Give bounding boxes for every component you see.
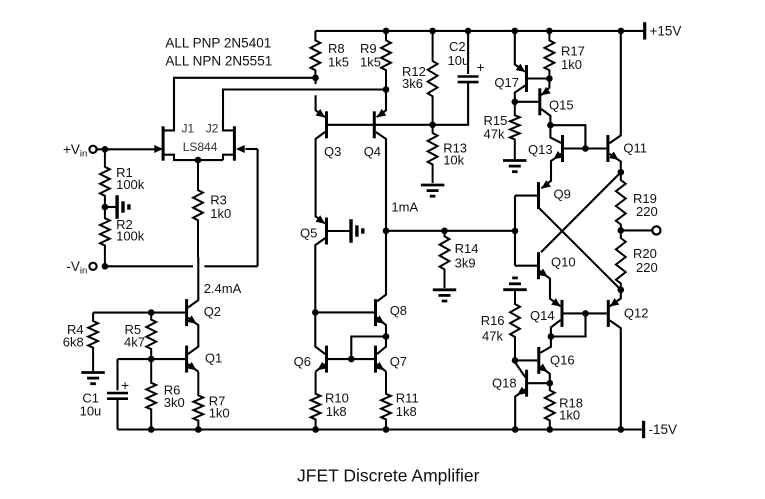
svg-text:+15V: +15V <box>650 23 682 38</box>
svg-text:2.4mA: 2.4mA <box>204 281 242 296</box>
svg-text:Q7: Q7 <box>390 354 407 369</box>
svg-text:10k: 10k <box>443 152 464 167</box>
svg-text:LS844: LS844 <box>183 140 218 154</box>
svg-text:1k5: 1k5 <box>328 55 349 70</box>
svg-text:Q10: Q10 <box>551 255 576 270</box>
svg-text:Q17: Q17 <box>494 75 519 90</box>
svg-text:10u: 10u <box>448 53 470 68</box>
svg-text:+: + <box>121 377 129 393</box>
svg-text:Q16: Q16 <box>550 353 575 368</box>
svg-text:+Vin: +Vin <box>63 142 87 160</box>
svg-text:R14: R14 <box>455 241 479 256</box>
svg-text:10u: 10u <box>80 403 102 418</box>
svg-text:ALL NPN 2N5551: ALL NPN 2N5551 <box>165 53 272 68</box>
svg-text:1k8: 1k8 <box>396 404 417 419</box>
svg-text:R20: R20 <box>633 246 657 261</box>
svg-text:Q11: Q11 <box>623 141 647 156</box>
svg-text:3k6: 3k6 <box>402 76 423 91</box>
svg-text:6k8: 6k8 <box>63 335 84 350</box>
svg-text:-15V: -15V <box>649 422 678 437</box>
svg-text:Q4: Q4 <box>364 144 381 159</box>
svg-text:Q14: Q14 <box>530 308 555 323</box>
svg-text:+: + <box>477 59 485 75</box>
svg-text:Q1: Q1 <box>205 351 222 366</box>
svg-text:J1: J1 <box>182 122 195 136</box>
svg-text:Q9: Q9 <box>554 187 571 202</box>
svg-text:Q13: Q13 <box>528 142 553 157</box>
svg-text:C2: C2 <box>449 39 466 54</box>
svg-text:Q8: Q8 <box>390 303 407 318</box>
svg-text:1k0: 1k0 <box>561 57 582 72</box>
svg-text:-Vin: -Vin <box>66 259 87 277</box>
svg-text:1k0: 1k0 <box>210 206 231 221</box>
svg-text:ALL PNP 2N5401: ALL PNP 2N5401 <box>165 35 271 50</box>
svg-text:47k: 47k <box>482 328 503 343</box>
svg-text:1k0: 1k0 <box>209 405 230 420</box>
svg-text:1mA: 1mA <box>391 200 418 215</box>
svg-text:4k7: 4k7 <box>124 335 145 350</box>
svg-text:R16: R16 <box>481 313 505 328</box>
svg-text:Q5: Q5 <box>300 226 317 241</box>
svg-text:220: 220 <box>636 260 658 275</box>
svg-text:3k9: 3k9 <box>455 256 476 271</box>
svg-text:Q12: Q12 <box>624 306 649 321</box>
svg-text:JFET Discrete Amplifier: JFET Discrete Amplifier <box>297 466 480 486</box>
svg-text:1k5: 1k5 <box>360 55 381 70</box>
svg-text:J2: J2 <box>206 122 219 136</box>
svg-text:100k: 100k <box>116 177 145 192</box>
svg-text:220: 220 <box>636 204 658 219</box>
svg-text:100k: 100k <box>116 229 145 244</box>
svg-text:47k: 47k <box>484 127 505 142</box>
svg-text:1k8: 1k8 <box>326 404 347 419</box>
svg-text:Q15: Q15 <box>549 98 574 113</box>
svg-text:1k0: 1k0 <box>559 408 580 423</box>
svg-text:Q2: Q2 <box>204 304 221 319</box>
svg-text:Q18: Q18 <box>492 376 517 391</box>
svg-text:Q6: Q6 <box>294 354 311 369</box>
svg-text:Q3: Q3 <box>324 144 341 159</box>
svg-text:3k0: 3k0 <box>164 395 185 410</box>
